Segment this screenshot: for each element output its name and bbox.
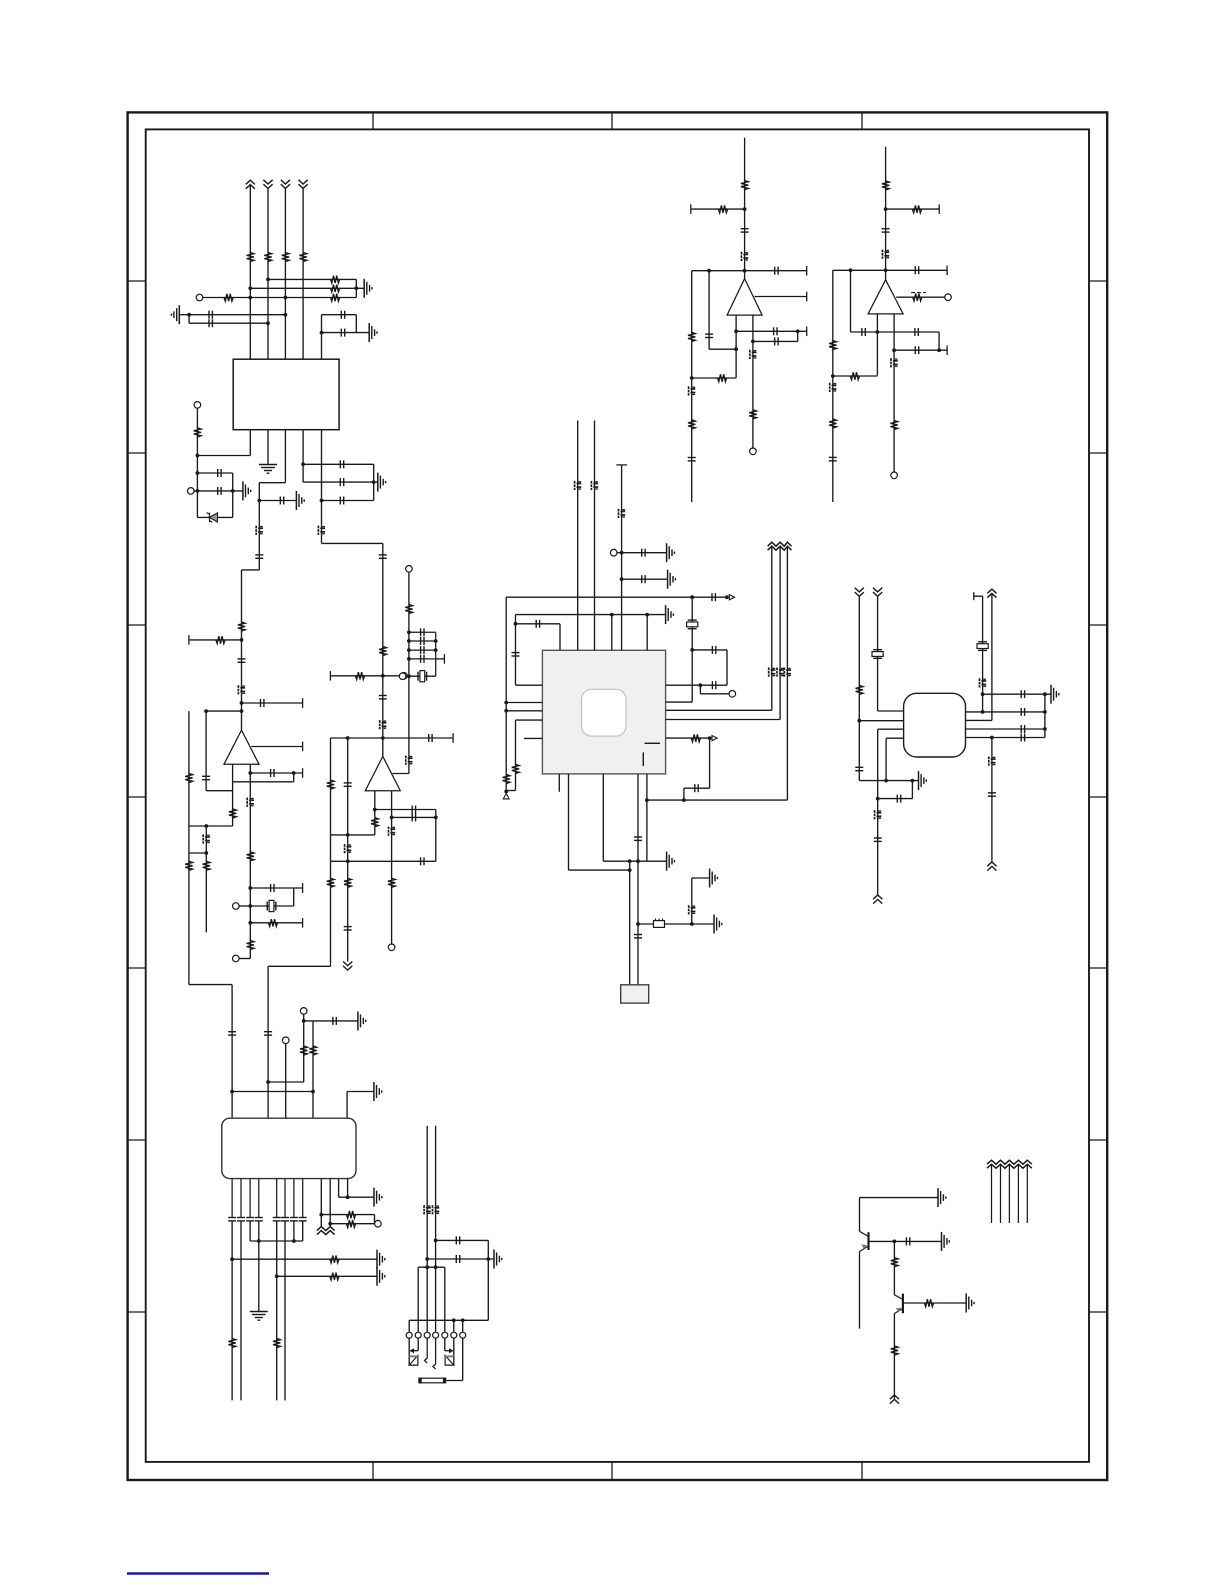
wire IC2 pin a	[231, 985, 233, 1119]
node xrow1	[407, 630, 411, 634]
capacitor C87 electrolytic	[883, 250, 890, 259]
wire U5 left pin1	[878, 710, 904, 712]
resistor R14	[229, 809, 236, 818]
wire row782	[233, 781, 294, 783]
wire bus1045	[1044, 694, 1046, 737]
wire row1021	[304, 1020, 358, 1022]
wire row817	[392, 816, 436, 818]
ground G19	[377, 1250, 385, 1269]
wire row1240	[436, 1239, 489, 1241]
capacitor C54 electrolytic	[875, 810, 882, 819]
node row861 b	[636, 859, 640, 863]
capacitor C44	[712, 681, 715, 689]
node row1 net2	[266, 278, 270, 282]
wire pin4 seg	[258, 1221, 260, 1311]
ground G3	[369, 323, 377, 342]
terminal T2	[194, 402, 201, 409]
wire xcluster feed	[408, 572, 410, 676]
tick xchain top	[973, 592, 975, 600]
node chain515 cap	[514, 622, 518, 626]
wire U1 pin1 down	[249, 430, 251, 456]
capacitor C75	[456, 1236, 459, 1244]
wire B row332	[851, 331, 940, 333]
node xrow4	[407, 657, 411, 661]
node 348 row861	[346, 859, 350, 863]
capacitor C50	[634, 837, 642, 840]
capacitor C83 electrolytic	[689, 386, 696, 395]
terminal T10	[610, 549, 617, 556]
fuse F1	[418, 1378, 446, 1384]
wire U4 top pin4	[611, 615, 613, 651]
capacitor C33	[421, 857, 424, 865]
wire net5 cap row	[259, 500, 296, 502]
wire xtal chain	[691, 597, 693, 702]
capacitor C93	[829, 457, 837, 460]
wire U1 pin4 down	[302, 430, 304, 482]
resistor R6	[331, 285, 340, 292]
resistor R41	[688, 332, 695, 341]
capacitor C61	[1021, 734, 1024, 742]
connector J2 pin6	[451, 1332, 457, 1338]
wire nc pin3 hook	[425, 1338, 428, 1363]
wire row800	[647, 799, 788, 801]
wire rp1 branch	[699, 685, 701, 694]
node row703	[240, 701, 244, 705]
wire U6 pin2 down	[240, 1179, 242, 1218]
node U8 inL	[876, 330, 880, 334]
resistor R27	[503, 774, 510, 783]
terminal T1	[196, 294, 203, 301]
capacitor C64	[333, 1017, 336, 1025]
node rp1	[699, 683, 703, 687]
wire row640	[189, 639, 242, 641]
wire chain992 lower	[991, 738, 993, 863]
node row711	[240, 709, 244, 713]
wire chain313	[312, 1021, 314, 1118]
resistor R15	[203, 861, 210, 870]
resistor R31	[309, 1046, 316, 1055]
node U5a pin	[857, 719, 861, 723]
wire Q2 base row	[903, 1302, 943, 1304]
connector J2 pin5	[442, 1332, 448, 1338]
ground G2	[172, 305, 180, 324]
wire Q1 collector up	[859, 1198, 861, 1232]
opto D2 triangle	[409, 1356, 418, 1366]
capacitor C58	[1021, 690, 1024, 698]
node rowB net2	[266, 321, 270, 325]
capacitor C76	[456, 1255, 459, 1263]
capacitor C30	[344, 783, 352, 786]
wire U6 pin3 down	[249, 1179, 251, 1218]
wire cap row A	[189, 314, 285, 316]
ground G11	[667, 852, 675, 871]
capacitor C16	[261, 699, 264, 707]
wire U1 pin3 jog	[259, 482, 285, 484]
wire zener bottom	[197, 516, 232, 518]
ground G25	[966, 1294, 974, 1313]
ground G16	[358, 1011, 366, 1030]
capacitor C3	[341, 311, 344, 319]
tick row703	[302, 698, 304, 708]
wire row791	[206, 790, 233, 792]
wire Q1 collector diag	[860, 1231, 869, 1236]
node row817 end	[434, 816, 438, 820]
wire T2 chain	[196, 408, 198, 517]
wire Q1 emitter diag	[860, 1244, 869, 1251]
wire Q1 cap row	[894, 1240, 941, 1242]
wire row826	[189, 825, 233, 827]
off-page arrow U5 c	[987, 589, 996, 598]
capacitor C612	[299, 1218, 307, 1221]
wire B row271 right	[886, 269, 948, 271]
wire pin4 row2	[303, 481, 374, 483]
resistor R43	[718, 374, 727, 381]
ground G1	[364, 279, 372, 298]
wire A row209	[691, 208, 745, 210]
tick B row209	[938, 204, 940, 214]
wire pin5 drop	[444, 1267, 446, 1332]
capacitor C80	[774, 327, 777, 335]
node row826	[204, 824, 208, 828]
node net5 row	[257, 499, 261, 503]
wire U6 pin1 down	[231, 1179, 233, 1218]
resistor R26	[388, 878, 395, 887]
capacitor C52 electrolytic	[689, 905, 696, 914]
node rp5	[708, 736, 712, 740]
wire G6 stub	[374, 481, 378, 483]
terminal T15	[750, 448, 757, 455]
resistor R9	[194, 428, 201, 437]
terminal T8	[399, 673, 406, 680]
connector J2 pin2	[415, 1332, 421, 1338]
capacitor C91	[915, 346, 918, 354]
wire U7 out	[755, 296, 807, 298]
node B row209	[884, 207, 888, 211]
wire loop330	[330, 738, 332, 963]
wire bus1320	[409, 1319, 488, 1321]
terminal T5	[233, 955, 240, 962]
wire U2 inL ext	[232, 782, 234, 826]
off-page arrow A2	[712, 736, 717, 741]
ground G5	[296, 491, 304, 510]
capacitor C35	[264, 1032, 272, 1035]
wire opamp2 feed	[382, 543, 384, 756]
node left pin3	[504, 709, 508, 713]
wire B row376	[833, 375, 878, 377]
wire U4 bot pin1	[568, 774, 570, 870]
wire row835	[331, 834, 375, 836]
wire A row349	[709, 348, 736, 350]
wire trio gnd stub	[356, 287, 364, 289]
wire U4 top pin0	[559, 624, 561, 651]
capacitor C65	[228, 1218, 236, 1221]
off-page arrow chain348	[343, 962, 352, 971]
crystal X5	[977, 642, 988, 651]
wire xfb down	[408, 676, 410, 773]
op-amp U7	[727, 279, 762, 316]
resistor R1	[247, 252, 254, 261]
resistor R4	[299, 252, 306, 261]
wire loop to IC2	[189, 984, 232, 986]
transistor Q1 base bar	[867, 1232, 869, 1250]
node row888	[248, 886, 252, 890]
capacitor C73 electrolytic	[424, 1205, 431, 1214]
wire ttick row	[974, 595, 983, 597]
node A left row378	[690, 376, 694, 380]
wire U1 pin5 down	[321, 430, 323, 544]
wire pin6 drop	[453, 1320, 455, 1332]
capacitor C86	[882, 229, 890, 232]
resistor R30	[856, 685, 863, 694]
wire xrow1	[409, 628, 436, 636]
resistor R11	[216, 636, 225, 643]
wire pin4 bus	[373, 464, 375, 500]
wire box leg	[629, 861, 631, 985]
node pin4 row	[257, 1239, 261, 1243]
resistor R13	[185, 861, 192, 870]
node IC2b row	[266, 1080, 270, 1084]
capacitor C49	[695, 784, 698, 792]
wire Q2 emitter down	[893, 1314, 895, 1400]
wire loop left outer	[188, 711, 190, 985]
resistor R47	[850, 372, 859, 379]
border zone ticks bottom edge	[373, 1462, 862, 1480]
wire row1267	[418, 1266, 445, 1268]
wire loop left inner	[205, 711, 207, 791]
wire A row378	[692, 377, 736, 379]
resistor R8	[224, 294, 233, 301]
node pin1 row	[230, 1257, 234, 1261]
node row1092 b	[311, 1090, 315, 1094]
ground G24	[942, 1232, 950, 1251]
wire A left chain	[691, 271, 693, 502]
capacitor C36 electrolytic	[575, 481, 582, 490]
resistor R42	[688, 420, 695, 429]
wire Q2 collector diag	[894, 1295, 903, 1300]
node pin4 bus	[372, 480, 376, 484]
node pin12 row	[346, 1195, 350, 1199]
node U2 inR	[248, 771, 252, 775]
off-page arrow Q2 emitter	[890, 1395, 899, 1404]
wire pin3 seg	[249, 1221, 251, 1241]
capacitor C82	[705, 334, 713, 337]
wire rows bus	[374, 1215, 376, 1224]
wire cluster bus	[355, 315, 357, 333]
wire row711	[206, 710, 241, 712]
resistor R3	[282, 252, 289, 261]
thermistor RT1	[911, 293, 926, 301]
wire offpage4	[1017, 1164, 1019, 1223]
capacitor C39	[642, 549, 645, 557]
wire pin4 row1	[303, 463, 374, 465]
wire G2 drop	[188, 315, 190, 324]
wire row1092	[232, 1091, 313, 1093]
wire offpage2	[1000, 1164, 1002, 1223]
wire U4 bot pin3	[637, 774, 639, 985]
off-page band right trio	[768, 542, 792, 550]
capacitor C46 electrolytic	[769, 668, 776, 677]
node T2 circrow	[196, 489, 200, 493]
terminal T7	[406, 566, 413, 573]
wire pin7 drop	[462, 1320, 464, 1332]
wire conn888-906	[293, 888, 295, 906]
terminal T3	[188, 488, 195, 495]
wire U2 inR	[249, 764, 251, 773]
wire A feed	[744, 138, 746, 279]
wire net4 vertical	[302, 188, 304, 359]
wire B row209	[886, 208, 940, 210]
ground G9	[668, 570, 676, 589]
wire xfb corner	[392, 773, 409, 775]
node trio bus	[354, 286, 358, 290]
wire B row271 left	[833, 269, 886, 271]
capacitor C32	[344, 927, 352, 930]
wire U6 pin7 down	[293, 1179, 295, 1218]
wire U4 left pin4	[516, 719, 543, 721]
capacitor C92 electrolytic	[830, 383, 837, 392]
wire pin1 jog	[569, 869, 630, 871]
wire U4 bot pin2	[602, 774, 604, 861]
node row800	[682, 798, 686, 802]
wire U5 left pin4	[886, 737, 904, 739]
wire row694	[983, 693, 1051, 695]
wire xrow2	[409, 637, 436, 645]
wire row773	[250, 772, 302, 774]
node pin10 row	[328, 1222, 332, 1226]
node T1-net3	[284, 296, 288, 300]
wire T12 down	[285, 1044, 287, 1119]
ground earth G18	[250, 1312, 268, 1321]
wire U4 right pin4 long	[666, 719, 781, 721]
wire Q1 emitter down	[859, 1252, 861, 1329]
wire U5c	[991, 594, 993, 721]
node 348 row835	[346, 833, 350, 837]
resistor R16	[247, 852, 254, 861]
resistor R19	[379, 646, 386, 655]
capacitor C25 electrolytic	[380, 720, 387, 729]
wire row781	[859, 780, 918, 782]
node bus1320 a	[452, 1318, 456, 1322]
capacitor C56	[897, 795, 900, 803]
wire U2 inR chain	[249, 773, 251, 959]
node row738	[381, 736, 385, 740]
wire row738 right	[383, 737, 453, 739]
IC U4 inner mark2	[642, 752, 644, 766]
wire row799	[878, 798, 913, 800]
capacitor C9	[340, 478, 343, 486]
wire IC2 pin b	[267, 966, 269, 1118]
wire row1197	[339, 1196, 374, 1198]
terminal T17	[891, 472, 898, 479]
wire row799 bus	[911, 781, 913, 799]
resistor R46	[912, 205, 921, 212]
node T10	[620, 551, 624, 555]
wire T4 stub	[239, 905, 250, 907]
tick row640	[188, 635, 190, 645]
capacitor C611	[290, 1218, 298, 1221]
node pin7 row	[292, 1239, 296, 1243]
node row711 left	[204, 709, 208, 713]
wire row1259	[427, 1258, 494, 1260]
wire B chain850	[850, 270, 852, 332]
capacitor C62 electrolytic	[989, 757, 996, 766]
node xtal row	[407, 674, 411, 678]
capacitor C11 electrolytic	[318, 526, 325, 535]
sheet border inner frame	[146, 129, 1089, 1462]
resistor R32	[300, 1046, 307, 1055]
terminal T9	[388, 944, 395, 951]
node ferrite gnd	[690, 922, 694, 926]
capacitor C79	[775, 267, 778, 275]
capacitor C18	[202, 776, 210, 779]
capacitor C610	[281, 1218, 289, 1221]
resistor R21	[371, 818, 378, 827]
node U7 inL a	[734, 329, 738, 333]
resistor R40	[718, 205, 727, 212]
wire trio row1	[268, 278, 356, 280]
IC U5 resonator module	[904, 693, 966, 757]
wire row553	[622, 552, 667, 554]
node row676	[381, 674, 385, 678]
wire row579	[622, 578, 668, 580]
wire U4 right pin2	[666, 701, 693, 703]
tick xrow4	[443, 654, 445, 664]
node chain886	[884, 779, 888, 783]
node row923	[248, 921, 252, 925]
wire A capchain	[708, 271, 710, 350]
node A row271	[743, 269, 747, 273]
node row737 mid	[990, 736, 994, 740]
wire U1 pin3 down	[284, 430, 286, 483]
border zone ticks left edge	[128, 281, 146, 1312]
node row781 b	[911, 779, 915, 783]
wire zener right leg	[232, 473, 234, 517]
capacitor C26	[429, 734, 432, 742]
resistor R22	[405, 604, 412, 613]
wire opamp1 feed	[241, 570, 243, 730]
capacitor C5	[280, 497, 283, 505]
opto D2 arrow	[409, 1348, 418, 1353]
node row853	[204, 851, 208, 855]
capacitor C21 electrolytic	[247, 798, 254, 807]
wire net2 vertical	[267, 188, 269, 359]
wire pin1 drop	[408, 1320, 410, 1332]
wire pin2 long	[240, 1221, 242, 1400]
wire U4 right pin3 long	[666, 709, 772, 711]
wire ferrite gnd	[692, 923, 714, 925]
wire row650	[692, 649, 727, 651]
capacitor C6 electrolytic	[256, 526, 263, 535]
node chain982 b	[981, 710, 985, 714]
wire U2 inL	[232, 764, 234, 782]
resistor R45	[882, 181, 889, 190]
node A row209	[743, 207, 747, 211]
node feed1 a	[425, 1257, 429, 1261]
terminal T4	[233, 903, 240, 910]
ground G10	[666, 605, 674, 624]
wire T13 down	[303, 1014, 305, 1082]
border zone ticks top edge	[373, 112, 862, 129]
capacitor C22	[271, 884, 274, 892]
wire Q1-Q2 link	[893, 1241, 895, 1294]
wire row1215	[321, 1214, 374, 1216]
wire pin10	[329, 1179, 331, 1227]
node pin4 row1	[301, 462, 305, 466]
wire conn feed2	[435, 1126, 437, 1332]
wire nc pin4 hook	[433, 1338, 436, 1369]
capacitor C94 electrolytic	[891, 358, 898, 367]
wire U4 top pin3	[621, 465, 623, 650]
